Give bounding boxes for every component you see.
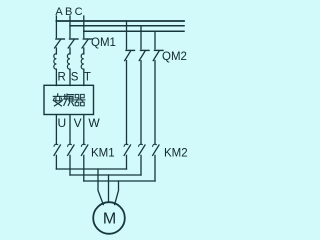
wire KM1 pole 2 to junction level 2 [69,155,71,175]
svg-text:QM1: QM1 [91,37,116,49]
reactor L2 (phase B) [67,54,70,70]
contactor KM1 pole 1 [54,144,60,155]
wire C reactor to VFD box [83,69,85,85]
wire motor lead 1 [98,169,103,205]
bus line phase A [56,20,184,22]
wire KM1 pole 3 to junction level 3 [83,155,85,181]
wire KM2 pole 1 to junction level 1 [126,155,128,169]
wire W from VFD box down [83,115,85,144]
breaker QM2 pole 3 [153,50,163,60]
breaker QM1 pole 3 [82,39,92,48]
contactor KM2 pole 2 [139,144,145,155]
svg-text:V: V [74,116,82,130]
reactor L3 (phase C) [81,54,84,70]
wire QM2 pole 1 down to KM2 [126,61,128,145]
VFD label 变频器 char 频 (hand-drawn strokes) [64,94,74,106]
VFD label 变频器 char 器 (hand-drawn strokes) [74,94,85,105]
wire B between QM1 and reactor [69,48,71,54]
breaker QM2 pole 2 [139,50,149,60]
motor M circle [93,202,125,234]
svg-text:C: C [75,6,83,18]
reactor L1 (phase A) [54,54,57,70]
svg-text:M: M [103,211,116,228]
svg-text:KM1: KM1 [91,148,115,160]
wire junction level 1 horizontal [56,168,126,170]
bus line phase B [70,25,184,27]
contactor KM2 pole 3 [153,144,159,155]
VFD inverter box U1 [44,85,94,114]
bus line phase C [84,30,184,32]
wire KM2 pole 2 to junction level 2 [140,155,142,175]
breaker QM2 pole 2 stub from bus B [140,26,142,49]
wire junction level 3 horizontal [84,180,155,182]
wire phase C vertical from label to QM1 [83,16,85,38]
wire U from VFD box down [55,115,57,144]
svg-text:T: T [84,72,91,84]
contactor KM2 pole 1 [124,144,130,155]
wire motor lead 3 [115,181,119,205]
wire A between QM1 and reactor [55,48,57,54]
contactor KM1 pole 2 [68,144,74,155]
breaker QM2 pole 1 [125,50,135,60]
svg-text:S: S [71,72,79,84]
svg-text:KM2: KM2 [164,148,188,160]
wire KM2 pole 3 to junction level 3 [154,155,156,181]
wire A reactor to VFD box [55,69,57,85]
wire junction level 2 horizontal [70,174,141,176]
svg-text:QM2: QM2 [162,51,187,63]
wire QM2 pole 2 down to KM2 [140,61,142,145]
breaker QM1 pole 1 [55,39,65,48]
wire QM2 pole 3 down to KM2 [154,61,156,145]
breaker QM2 pole 1 stub from bus A [126,21,128,49]
breaker QM1 pole 2 [68,39,78,48]
wire C between QM1 and reactor [83,48,85,54]
wire B reactor to VFD box [69,69,71,85]
svg-text:W: W [88,116,100,130]
VFD label 变频器 char 变 (hand-drawn strokes) [53,94,62,106]
wire phase A vertical from label to QM1 [55,16,57,38]
wire motor lead 2 [108,175,110,202]
wire phase B vertical from label to QM1 [69,16,71,38]
svg-text:R: R [58,72,66,84]
wire V from VFD box down [69,115,71,144]
contactor KM1 pole 3 [81,144,87,155]
breaker QM2 pole 3 stub from bus C [154,31,156,49]
wire KM1 pole 1 to junction level 1 [55,155,57,169]
svg-text:B: B [65,6,72,18]
svg-text:U: U [57,116,66,130]
